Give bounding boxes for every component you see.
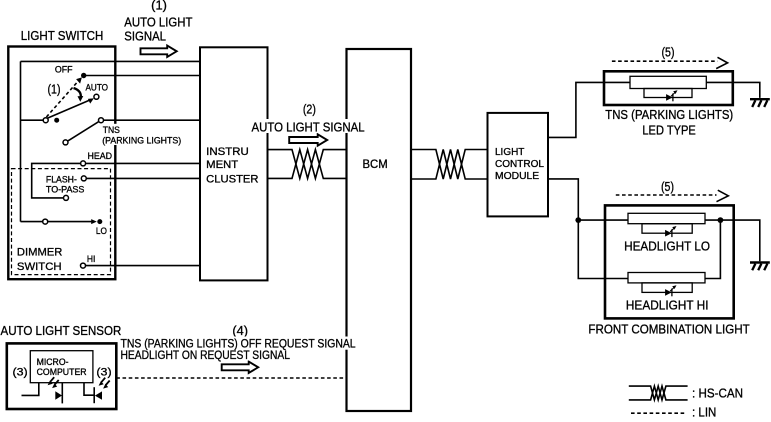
svg-text:CONTROL: CONTROL [495,159,544,170]
svg-text:DIMMER: DIMMER [17,247,63,259]
svg-text:TO-PASS: TO-PASS [46,185,85,195]
svg-text:AUTO LIGHT SENSOR: AUTO LIGHT SENSOR [1,324,122,338]
svg-text:LED TYPE: LED TYPE [642,123,695,137]
svg-text:MICRO-: MICRO- [37,357,69,367]
svg-text:TNS (PARKING LIGHTS): TNS (PARKING LIGHTS) [605,108,733,122]
svg-text:(4): (4) [232,324,248,338]
svg-text:(PARKING LIGHTS): (PARKING LIGHTS) [102,136,181,146]
svg-text:: LIN: : LIN [692,406,716,420]
svg-text:LIGHT SWITCH: LIGHT SWITCH [21,29,104,43]
svg-text:FRONT COMBINATION LIGHT: FRONT COMBINATION LIGHT [588,322,750,336]
svg-text:AUTO LIGHT: AUTO LIGHT [124,16,193,30]
svg-text:(3): (3) [13,367,28,379]
svg-text:(1): (1) [48,83,61,97]
svg-text:TNS: TNS [103,125,120,135]
svg-text:AUTO: AUTO [86,82,109,92]
svg-text:(2): (2) [303,103,316,117]
svg-text:LIGHT: LIGHT [495,147,524,158]
svg-text:LO: LO [96,226,107,236]
svg-text:INSTRU: INSTRU [206,146,249,158]
svg-text:(1): (1) [151,0,167,13]
svg-text:TNS (PARKING LIGHTS) OFF REQUE: TNS (PARKING LIGHTS) OFF REQUEST SIGNAL [121,339,357,351]
svg-text:(5): (5) [661,180,674,194]
svg-text:CLUSTER: CLUSTER [206,173,259,185]
svg-text:HEADLIGHT LO: HEADLIGHT LO [624,239,710,253]
svg-text:HEAD: HEAD [88,151,113,161]
svg-text:HEADLIGHT ON REQUEST SIGNAL: HEADLIGHT ON REQUEST SIGNAL [121,350,291,362]
svg-text:SIGNAL: SIGNAL [124,30,166,44]
svg-text:AUTO LIGHT SIGNAL: AUTO LIGHT SIGNAL [252,120,365,134]
svg-text:FLASH-: FLASH- [46,175,77,185]
svg-text:COMPUTER: COMPUTER [37,367,87,377]
svg-text:OFF: OFF [55,65,73,75]
svg-text:MENT: MENT [206,159,239,171]
svg-text:SWITCH: SWITCH [17,261,62,273]
svg-text:BCM: BCM [363,157,388,171]
svg-text:HI: HI [87,254,96,264]
svg-text:(3): (3) [96,367,111,379]
svg-text:MODULE: MODULE [495,171,540,182]
svg-text:: HS-CAN: : HS-CAN [692,386,743,400]
svg-text:HEADLIGHT HI: HEADLIGHT HI [626,299,709,313]
svg-text:(5): (5) [662,46,675,60]
